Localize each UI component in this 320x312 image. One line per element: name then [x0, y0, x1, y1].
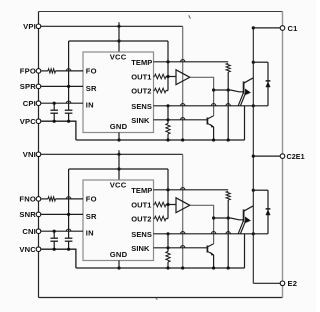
wire GND pin of U2 to rail: [118, 261, 120, 269]
resistor R3b from TEMP down to base node: [226, 191, 230, 200]
hop SINK over supply vertical: [181, 246, 185, 248]
junction R3 leg / ground rail: [227, 266, 230, 269]
svg-text:FNO: FNO: [19, 195, 36, 204]
terminal C2E1: [280, 154, 285, 159]
junction SINK / resistor leg: [166, 118, 169, 121]
junction R4 / ground rail: [166, 266, 169, 269]
wire VCC riser stub: [118, 150, 120, 180]
ground rail of block a: [76, 139, 245, 141]
junction cap C2b / VNC wire: [67, 248, 70, 251]
junction VPI line / VCC riser: [117, 25, 120, 28]
junction R3 leg / base node line: [227, 88, 230, 91]
op-amp A2: [176, 198, 190, 213]
capacitor C2a: [65, 109, 73, 111]
wire SNR to SR pin: [41, 213, 83, 215]
wire bias line left leg down: [68, 169, 70, 238]
junction C2E1 line / collector rail: [252, 155, 255, 158]
wire GND pin of U1 to rail: [118, 133, 120, 141]
svg-text:SINK: SINK: [131, 244, 150, 253]
wire C2E1 line: [253, 155, 280, 157]
wire SENS line to emitter node: [154, 233, 269, 235]
svg-text:IN: IN: [86, 101, 94, 110]
outer frame top rail: [39, 11, 283, 13]
speck near top: [189, 15, 191, 18]
wire bias line right leg down to TEMP: [167, 169, 169, 219]
junction CNI / capacitor C1b: [53, 230, 56, 233]
wire op-amp A2 output: [190, 205, 214, 244]
wire vertical from VNI line down to ground rail: [182, 154, 184, 268]
junction SNR / bias leg: [67, 213, 70, 216]
hop SENS over R3 leg: [226, 232, 230, 234]
wire VNC to ground rail: [41, 249, 76, 268]
svg-text:OUT2: OUT2: [131, 215, 151, 224]
svg-text:SNR: SNR: [19, 210, 36, 219]
hop FNO over bias leg: [66, 197, 70, 199]
svg-text:E2: E2: [288, 279, 298, 288]
terminal FNO: [36, 197, 41, 202]
svg-text:SPR: SPR: [20, 82, 37, 91]
wire base drive to Q1: [214, 90, 244, 92]
terminal SNR: [36, 212, 41, 217]
svg-text:SR: SR: [86, 84, 97, 93]
junction OUT1 / bias right leg: [166, 203, 169, 206]
op-amp A1: [176, 70, 190, 85]
junction SENS-emitter line / output rail: [252, 104, 255, 107]
output collector rail vertical: [252, 28, 254, 283]
wire TEMP pin line: [154, 61, 229, 63]
svg-text:GND: GND: [110, 250, 128, 259]
terminal VPI: [36, 24, 41, 29]
wire collector node to diode D1: [253, 61, 268, 63]
speck near bottom rail: [156, 298, 158, 299]
wire VNI supply line: [41, 153, 183, 155]
wire op-amp A1 output: [190, 77, 214, 116]
svg-text:GND: GND: [110, 122, 128, 131]
svg-text:OUT1: OUT1: [131, 73, 151, 82]
wire FPO to FO pin: [56, 70, 84, 72]
svg-text:C2E1: C2E1: [287, 152, 305, 161]
wire SINK pin to Q2 base: [154, 119, 208, 121]
ground rail of block b: [76, 267, 245, 269]
wire base drive to Q3: [214, 218, 244, 220]
svg-text:OUT2: OUT2: [131, 87, 151, 96]
junction GND pin / ground rail: [117, 266, 120, 269]
op-amp driver IC U2 box: [83, 180, 154, 261]
resistor on FNO line: [41, 198, 48, 200]
junction TEMP / bias right leg: [166, 60, 169, 63]
wire E2 line: [253, 282, 280, 284]
wire bias line right leg down to TEMP: [167, 41, 169, 91]
svg-text:C1: C1: [288, 24, 299, 33]
terminal CPI: [36, 101, 41, 106]
svg-text:VCC: VCC: [110, 181, 127, 190]
svg-text:CNI: CNI: [22, 227, 36, 236]
junction Q2 emitter / rail: [212, 138, 215, 141]
junction SENS-emitter line / output rail: [252, 232, 255, 235]
resistor R1a on OUT1: [154, 76, 155, 78]
junction supply vertical / ground rail: [181, 266, 184, 269]
wire FNO to FO pin: [56, 198, 84, 200]
terminal SPR: [36, 84, 41, 89]
terminal E2: [280, 281, 285, 286]
hop SENS over supply vertical: [181, 232, 185, 234]
outer frame right rail: [282, 12, 284, 298]
hop SENS over R3 leg: [226, 104, 230, 106]
wire VPC to ground rail: [41, 121, 76, 140]
svg-text:VNC: VNC: [19, 245, 36, 254]
junction SENS / sink resistor leg: [166, 104, 169, 107]
svg-text:SINK: SINK: [131, 116, 150, 125]
junction VNI line / VCC riser: [117, 153, 120, 156]
resistor R4a SENS to ground rail: [167, 106, 169, 124]
junction TEMP / bias right leg: [166, 188, 169, 191]
capacitor C1b: [53, 231, 55, 238]
svg-text:SENS: SENS: [131, 102, 152, 111]
wire Q1 emitter node down to rail end: [244, 106, 246, 140]
svg-text:TEMP: TEMP: [131, 58, 152, 67]
junction SENS / sink resistor leg: [166, 232, 169, 235]
svg-text:FPO: FPO: [20, 67, 36, 76]
svg-text:VNI: VNI: [23, 150, 36, 159]
capacitor C1a: [53, 103, 55, 110]
wire VCC riser stub: [118, 22, 120, 52]
resistor R2b on OUT2: [154, 218, 155, 220]
hop SENS over sink collector: [211, 104, 215, 106]
junction R3 leg / base node line: [227, 216, 230, 219]
svg-text:VPI: VPI: [23, 22, 36, 31]
wire CPI to IN pin: [41, 102, 83, 104]
svg-text:TEMP: TEMP: [131, 186, 152, 195]
wire SENS line to emitter node: [154, 105, 269, 107]
wire vertical from VPI line down to ground rail: [182, 26, 184, 140]
wire Q4 emitter to rail: [213, 255, 215, 268]
hop TEMP over supply vertical: [181, 188, 185, 190]
wire SINK pin to Q4 base: [154, 247, 208, 249]
terminal CNI: [36, 229, 41, 234]
wire collector node to diode D2: [253, 189, 268, 191]
junction OUT1 / bias right leg: [166, 75, 169, 78]
hop SENS over supply vertical: [181, 104, 185, 106]
svg-text:FO: FO: [86, 67, 97, 76]
svg-text:IN: IN: [86, 229, 94, 238]
junction cap C2a / VPC wire: [67, 120, 70, 123]
junction VCC riser / bias line: [117, 167, 120, 170]
hop CPI over bias leg: [66, 101, 70, 103]
hop TEMP over supply vertical: [181, 60, 185, 62]
wire SPR to SR pin: [41, 85, 83, 87]
diode D2 flyback: [267, 190, 269, 234]
junction op-amp output / base node line: [212, 216, 215, 219]
terminal C1: [280, 26, 285, 31]
resistor on FPO line: [41, 70, 48, 72]
junction SINK / resistor leg: [166, 246, 169, 249]
resistor R2a on OUT2: [154, 90, 155, 92]
wire Q2 emitter to rail: [213, 127, 215, 140]
wire bias line: [69, 40, 168, 42]
transistor Q2 sink NPN: [206, 118, 208, 125]
transistor Q3 power output: [243, 210, 245, 222]
outer frame left rail: [38, 12, 40, 298]
wire CNI to IN pin: [41, 230, 83, 232]
junction GND pin / ground rail: [117, 138, 120, 141]
svg-text:VPC: VPC: [20, 117, 37, 126]
terminal FPO: [36, 69, 41, 74]
diode D1 flyback: [267, 62, 269, 106]
junction VCC riser / bias line: [117, 39, 120, 42]
junction SPR / bias leg: [67, 85, 70, 88]
junction cap C1b / VNC wire: [53, 248, 56, 251]
wire TEMP pin line: [154, 189, 229, 191]
wire VPI supply line: [41, 25, 183, 27]
resistor R4b SENS to ground rail: [167, 234, 169, 252]
outer frame bottom rail: [39, 297, 283, 299]
resistor R3a from TEMP down to base node: [226, 63, 230, 72]
hop CNI over bias leg: [66, 229, 70, 231]
wire bias line: [69, 168, 168, 170]
wire bias line left leg down: [68, 41, 70, 110]
op-amp driver IC U1 box: [83, 52, 154, 133]
junction cap C1a / VPC wire: [53, 120, 56, 123]
svg-text:SENS: SENS: [131, 230, 152, 239]
svg-text:OUT1: OUT1: [131, 201, 151, 210]
resistor R1b on OUT1: [154, 204, 155, 206]
junction collector node on output rail: [252, 189, 255, 192]
svg-text:FO: FO: [86, 195, 97, 204]
terminal VNC: [36, 247, 41, 252]
junction op-amp output / base node line: [212, 88, 215, 91]
hop FPO over bias leg: [66, 69, 70, 71]
terminal VNI: [36, 152, 41, 157]
svg-text:VCC: VCC: [110, 53, 127, 62]
junction CPI / capacitor C1a: [53, 102, 56, 105]
junction Q4 emitter / rail: [212, 266, 215, 269]
junction C1 line / collector rail: [252, 26, 255, 29]
svg-text:CPI: CPI: [23, 99, 36, 108]
svg-text:SR: SR: [86, 212, 97, 221]
hop SINK over supply vertical: [181, 118, 185, 120]
wire Q3 emitter node down to rail end: [244, 234, 246, 268]
terminal VPC: [36, 119, 41, 124]
junction R3 leg / ground rail: [227, 138, 230, 141]
junction collector node on output rail: [252, 61, 255, 64]
wire C1 line: [253, 27, 280, 29]
hop SENS over sink collector: [211, 232, 215, 234]
capacitor C2b: [65, 237, 73, 239]
junction R4 / ground rail: [166, 138, 169, 141]
transistor Q1 power output: [243, 82, 245, 94]
junction supply vertical / ground rail: [181, 138, 184, 141]
transistor Q4 sink NPN: [206, 246, 208, 253]
